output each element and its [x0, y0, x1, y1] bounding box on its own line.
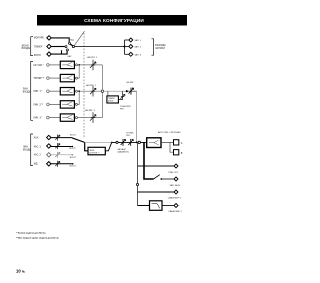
wire row5 to switch box — [49, 117, 60, 119]
svg-text:A: A — [181, 142, 183, 145]
speaker terminal B — [174, 150, 179, 155]
switch box row1 — [60, 61, 74, 68]
tape contact — [160, 178, 162, 180]
svg-text:10 Ru: 10 Ru — [16, 269, 26, 274]
svg-text:ВЫХОДЫ: ВЫХОДЫ — [155, 45, 165, 47]
wire rec stub 2 — [125, 46, 129, 48]
cap aux row1 — [55, 134, 60, 140]
terminal line row1 — [47, 64, 50, 67]
svg-text:САБВУФЕР 2: САБВУФЕР 2 — [168, 210, 182, 213]
svg-text:* Только модель для Китая: * Только модель для Китая — [16, 232, 46, 234]
bracket rec outputs — [152, 39, 154, 55]
wire tone line — [104, 90, 126, 92]
svg-text:ВОСП.: ВОСП. — [70, 157, 77, 159]
switch box row2 — [60, 74, 74, 81]
bracket line inputs group — [31, 62, 33, 121]
svg-text:CD / MD *: CD / MD * — [33, 65, 43, 67]
label tone pot — [120, 106, 131, 111]
wire row4 to switch box — [49, 103, 60, 105]
wire row3 to bus — [77, 90, 102, 92]
svg-text:КАС. 2: КАС. 2 — [34, 154, 42, 157]
wire tape out — [161, 178, 174, 180]
svg-text:ЛИН. 1 *: ЛИН. 1 * — [33, 91, 42, 93]
wire row1 to bus — [77, 64, 102, 66]
volume pot — [128, 139, 133, 146]
svg-text:MD/TAPE: MD/TAPE — [34, 37, 45, 40]
terminal aux row2 — [47, 144, 51, 148]
terminal jack row1 — [47, 36, 51, 40]
wire row2 to switch box — [49, 77, 60, 79]
contact loudness — [111, 142, 113, 144]
switch box row4 — [60, 101, 74, 108]
label line inputs group — [23, 89, 31, 94]
wire rec stub 3 — [125, 53, 129, 55]
svg-text:БЛОК: БЛОК — [108, 101, 114, 103]
terminal line row5 — [47, 116, 50, 119]
connector circle preamp-main — [138, 141, 140, 143]
svg-text:РЕГ.: РЕГ. — [120, 108, 125, 110]
contact circle bottom — [66, 49, 68, 51]
svg-text:ЗАП. 2: ЗАП. 2 — [134, 45, 142, 48]
main line to amp — [112, 141, 147, 143]
svg-text:МД: МД — [70, 39, 74, 41]
trimmer pot row3 — [90, 86, 96, 97]
terminal line row3 — [47, 90, 50, 93]
svg-text:ТЮНЕР **: ТЮНЕР ** — [33, 78, 44, 80]
terminal tape out — [174, 177, 178, 181]
wire aux row1 — [51, 137, 72, 139]
cap aux row4 — [55, 161, 60, 167]
svg-text:ВОСП.: ВОСП. — [69, 148, 76, 150]
bus vertical — [101, 65, 103, 118]
bypass gray line — [85, 141, 111, 143]
svg-text:AUX: AUX — [34, 137, 39, 140]
wire aux row2 — [51, 146, 72, 148]
trimmer pot row1 — [90, 60, 96, 71]
terminal jack row2 — [47, 44, 51, 48]
svg-text:ЗАП. 1: ЗАП. 1 — [134, 39, 142, 42]
wire row3 to switch box — [49, 90, 60, 92]
wire selector output to rec node — [75, 46, 125, 48]
ganged linkage dashed line — [83, 33, 85, 139]
switch box row5 — [60, 114, 74, 121]
contact aux row4 — [72, 163, 74, 165]
terminal aux row3 — [47, 153, 51, 157]
title bar СХЕМА КОНФИГУРАЦИИ — [37, 15, 187, 26]
balance pot — [121, 139, 126, 146]
wire pre out — [138, 165, 175, 167]
output circle row2 — [75, 77, 77, 79]
connector circle on tap — [136, 183, 138, 185]
bracket phono inputs group — [31, 37, 33, 56]
terminal aux row4 — [47, 162, 51, 166]
wire row4 join up — [77, 91, 79, 104]
label balance — [118, 148, 129, 153]
tone box output pot — [118, 91, 125, 99]
label volume — [126, 133, 134, 138]
main line corner down to loudness — [85, 142, 88, 150]
wire row2 join up — [77, 65, 79, 78]
contact circle top — [68, 42, 70, 44]
svg-text:АМ РЕГ. 1: АМ РЕГ. 1 — [87, 56, 97, 59]
svg-text:САБВУФЕР 1: САБВУФЕР 1 — [168, 196, 182, 199]
terminal pre out — [174, 164, 178, 168]
output circle row5 — [75, 117, 77, 119]
wire subwoofer 1 — [138, 191, 175, 193]
junction tone join — [136, 142, 138, 144]
svg-text:ВХОДЫ: ВХОДЫ — [23, 92, 31, 94]
svg-text:РЕГ.: РЕГ. — [126, 135, 131, 137]
terminal line row2 — [47, 77, 50, 80]
wire aux row3 gray — [51, 154, 72, 156]
svg-text:ЛИН.: ЛИН. — [23, 147, 29, 149]
svg-text:ЗАП. 3: ЗАП. 3 — [134, 53, 142, 56]
terminal line row4 — [47, 103, 50, 106]
wire rec stub 1 — [125, 39, 129, 41]
svg-text:АМ РЕГ. 2: АМ РЕГ. 2 — [86, 84, 96, 87]
wire row3 to selector contact — [51, 51, 67, 54]
treble pot — [129, 88, 134, 95]
svg-text:КАС. 1: КАС. 1 — [34, 145, 42, 148]
junction row3-4 — [78, 90, 80, 92]
svg-text:АМ РЕГ. 3: АМ РЕГ. 3 — [85, 109, 95, 112]
rec bus vertical — [124, 40, 126, 54]
cap aux row2 — [55, 143, 60, 149]
svg-text:АКУСТИЧ. СИСТЕМЫ: АКУСТИЧ. СИСТЕМЫ — [158, 131, 181, 134]
terminal jack row3 — [47, 52, 51, 56]
svg-text:ЗАПИСИ: ЗАПИСИ — [155, 47, 165, 50]
selector wiper — [70, 44, 73, 46]
wire lpf out — [162, 205, 174, 207]
contact circle mid — [65, 46, 67, 48]
wire tone down to main — [136, 91, 138, 142]
wire row1 to switch box — [49, 64, 60, 66]
svg-text:ВХОДЫ: ВХОДЫ — [23, 150, 31, 152]
label aux inputs group — [23, 147, 31, 152]
svg-text:ТЮНЕР: ТЮНЕР — [34, 46, 43, 48]
terminal rec out 3 — [129, 52, 133, 56]
svg-text:(BALANCE): (BALANCE) — [118, 151, 129, 154]
lpf box — [150, 201, 163, 211]
switch box row3 — [60, 88, 74, 95]
wire tone line right — [126, 90, 137, 92]
svg-text:ВХОДЫ: ВХОДЫ — [22, 47, 31, 50]
bracket aux inputs group — [31, 134, 33, 166]
svg-text:PRE OUT: PRE OUT — [169, 172, 179, 174]
svg-text:КОНТУР **: КОНТУР ** — [89, 153, 99, 155]
stub on row3 — [61, 50, 63, 54]
terminal rec out 2 — [129, 45, 133, 49]
wire to lpf — [138, 205, 150, 207]
svg-text:ВЧ РЕГ.: ВЧ РЕГ. — [127, 82, 135, 84]
svg-text:ВОСП.: ВОСП. — [70, 166, 77, 168]
terminal aux row1 — [47, 135, 51, 139]
junction row1-2 — [78, 64, 80, 66]
thick tap to tape — [144, 142, 154, 179]
svg-text:B: B — [181, 152, 183, 155]
contact aux row2 — [72, 146, 74, 148]
terminal rec out 1 — [129, 38, 133, 42]
tone box — [107, 96, 119, 103]
terminal subwoofer 2 — [174, 204, 178, 208]
label treble pot — [127, 82, 135, 84]
svg-text:** Все модели кроме модели для: ** Все модели кроме модели для Китая — [16, 238, 59, 240]
tape switch — [154, 175, 160, 179]
speaker terminal A — [174, 140, 179, 145]
svg-text:СХЕМА КОНФИГУРАЦИИ: СХЕМА КОНФИГУРАЦИИ — [84, 18, 144, 23]
svg-text:ФОНО: ФОНО — [34, 54, 41, 57]
connector circle main — [116, 141, 118, 143]
svg-text:МД: МД — [34, 164, 38, 166]
wire amp out — [161, 142, 174, 152]
preout tap vertical — [137, 142, 139, 205]
tone box input stub — [107, 91, 109, 96]
loudness box — [88, 147, 105, 155]
tap circle on bus — [101, 90, 103, 92]
label rec outputs group — [155, 45, 165, 50]
svg-text:ВОСП.: ВОСП. — [70, 134, 77, 136]
junction rec node — [124, 46, 126, 48]
loudness output switch — [105, 143, 111, 151]
output circle row4 — [75, 103, 77, 105]
speaker selector box — [147, 138, 161, 148]
trimmer pot row5 — [90, 112, 96, 123]
cap aux row3 — [55, 152, 60, 158]
selector pivot — [72, 45, 74, 47]
contact aux row3 — [72, 154, 74, 156]
selector linkage diagonal — [74, 31, 84, 45]
wire row2 to selector contact — [51, 46, 65, 48]
output circle row3 — [75, 90, 77, 92]
svg-text:ЛИН.: ЛИН. — [23, 89, 29, 91]
wire row1 to selector contact — [51, 38, 69, 42]
junction tone node — [126, 90, 128, 92]
label phono inputs — [22, 44, 31, 50]
terminal subwoofer 1 — [174, 190, 178, 194]
wire aux row4 — [51, 163, 72, 165]
output circle row1 — [75, 64, 77, 66]
wire row5 to bus — [77, 117, 102, 119]
svg-text:ЛИН. 3 *: ЛИН. 3 * — [33, 118, 42, 120]
svg-text:ЗАП. ВЫХ.: ЗАП. ВЫХ. — [170, 184, 181, 187]
wiper aux selector — [72, 138, 85, 143]
svg-text:КАС: КАС — [68, 55, 73, 58]
svg-text:ЛИН. 2 **: ЛИН. 2 ** — [33, 104, 43, 106]
